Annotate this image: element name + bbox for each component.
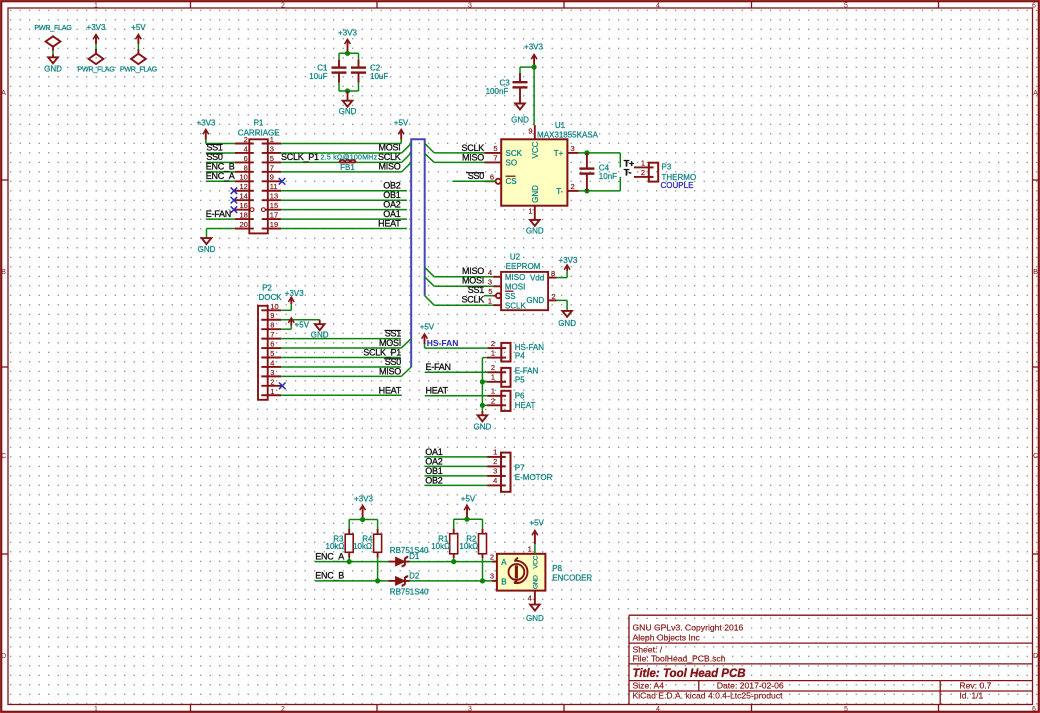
svg-text:3: 3 (571, 144, 575, 153)
svg-text:8: 8 (270, 321, 274, 330)
svg-text:+5V: +5V (420, 323, 435, 332)
svg-text:5: 5 (493, 144, 497, 153)
svg-text:+5V: +5V (394, 119, 409, 128)
svg-text:GND: GND (511, 116, 529, 125)
svg-text:A: A (1, 90, 6, 97)
svg-text:A: A (1033, 90, 1038, 97)
svg-text:1: 1 (270, 135, 274, 144)
svg-text:14: 14 (239, 192, 247, 201)
svg-text:3: 3 (270, 144, 274, 153)
svg-text:SCLK_P1: SCLK_P1 (281, 152, 319, 162)
svg-text:HS-FAN: HS-FAN (515, 343, 545, 352)
svg-text:2: 2 (490, 553, 494, 562)
svg-text:10kΩ: 10kΩ (326, 542, 345, 551)
svg-text:C: C (1, 453, 6, 460)
svg-text:HEAT: HEAT (515, 401, 536, 410)
svg-text:+5V: +5V (131, 23, 146, 32)
svg-text:1: 1 (94, 2, 98, 9)
svg-text:OA2: OA2 (425, 456, 443, 466)
svg-text:16: 16 (239, 201, 247, 210)
svg-text:E-FAN: E-FAN (515, 367, 539, 376)
svg-text:VCC: VCC (531, 141, 540, 158)
svg-text:9: 9 (270, 173, 274, 182)
svg-text:5: 5 (844, 2, 848, 9)
svg-text:P4: P4 (515, 352, 525, 361)
svg-text:OB1: OB1 (425, 466, 443, 476)
svg-text:HS-FAN: HS-FAN (427, 338, 459, 348)
svg-text:FB1: FB1 (340, 163, 355, 172)
svg-text:17: 17 (270, 211, 278, 220)
svg-text:SCK: SCK (506, 149, 523, 158)
svg-text:GND: GND (44, 65, 62, 74)
svg-text:8: 8 (244, 163, 248, 172)
svg-text:B: B (1, 269, 6, 276)
svg-text:File: ToolHead_PCB.sch: File: ToolHead_PCB.sch (633, 654, 726, 664)
svg-text:P1: P1 (254, 119, 264, 128)
svg-text:GND: GND (198, 245, 216, 254)
svg-text:2: 2 (552, 292, 556, 301)
svg-text:GND: GND (532, 575, 539, 589)
svg-text:1: 1 (94, 706, 98, 713)
svg-text:T-: T- (556, 187, 563, 196)
svg-text:SS: SS (505, 292, 516, 301)
svg-text:2: 2 (491, 363, 495, 372)
svg-text:7: 7 (493, 154, 497, 163)
svg-text:4: 4 (656, 706, 660, 713)
svg-text:2: 2 (641, 168, 645, 177)
svg-text:1: 1 (528, 207, 532, 216)
svg-text:3: 3 (468, 706, 472, 713)
svg-text:1: 1 (528, 545, 532, 554)
svg-text:E-MOTOR: E-MOTOR (515, 473, 553, 482)
svg-text:+3V3: +3V3 (197, 119, 216, 128)
svg-text:5: 5 (270, 349, 274, 358)
svg-text:MISO: MISO (462, 152, 484, 162)
svg-text:P6: P6 (515, 392, 525, 401)
svg-text:SO: SO (506, 158, 518, 167)
svg-text:10: 10 (270, 302, 278, 311)
svg-text:SCLK: SCLK (461, 295, 484, 305)
svg-text:+3V3: +3V3 (285, 289, 304, 298)
svg-text:4: 4 (528, 594, 532, 603)
svg-text:10uF: 10uF (370, 72, 388, 81)
svg-text:GND: GND (526, 226, 544, 235)
svg-text:P5: P5 (515, 376, 525, 385)
svg-text:SCLK: SCLK (461, 143, 484, 153)
svg-text:6: 6 (244, 154, 248, 163)
svg-text:ENC_B: ENC_B (315, 571, 344, 581)
svg-text:U1: U1 (555, 121, 566, 130)
svg-text:MISO: MISO (462, 266, 484, 276)
svg-text:MISO: MISO (379, 366, 401, 376)
svg-text:+5V: +5V (529, 519, 544, 528)
svg-text:+3V3: +3V3 (559, 256, 578, 265)
svg-text:HEAT: HEAT (426, 385, 449, 395)
svg-text:D2: D2 (409, 571, 420, 580)
svg-text:U2: U2 (510, 252, 521, 261)
svg-text:T-: T- (624, 168, 632, 178)
svg-text:SCLK: SCLK (505, 302, 527, 311)
svg-text:3: 3 (468, 2, 472, 9)
svg-text:12: 12 (239, 182, 247, 191)
svg-text:4: 4 (493, 476, 497, 485)
svg-text:B: B (501, 577, 506, 586)
svg-text:GND: GND (526, 296, 544, 305)
svg-text:DOCK: DOCK (258, 293, 282, 302)
svg-text:A: A (501, 558, 507, 567)
svg-text:Aleph Objects Inc: Aleph Objects Inc (633, 633, 701, 643)
svg-text:GND: GND (474, 423, 492, 432)
svg-text:ENC_A: ENC_A (206, 171, 235, 181)
svg-text:D: D (1, 653, 6, 660)
svg-text:7: 7 (270, 163, 274, 172)
svg-text:4: 4 (244, 144, 248, 153)
svg-text:GND: GND (339, 107, 357, 116)
svg-text:VCC: VCC (532, 555, 539, 568)
svg-text:8: 8 (551, 269, 555, 278)
svg-text:ENCODER: ENCODER (552, 573, 592, 582)
svg-text:+3V3: +3V3 (87, 23, 106, 32)
svg-text:Size: A4: Size: A4 (633, 680, 665, 690)
svg-text:1: 1 (491, 373, 495, 382)
svg-text:6: 6 (490, 173, 494, 182)
svg-text:E-FAN: E-FAN (426, 362, 451, 372)
svg-text:19: 19 (270, 220, 278, 229)
svg-text:2: 2 (281, 2, 285, 9)
svg-text:10: 10 (239, 173, 247, 182)
svg-text:6: 6 (1032, 2, 1036, 9)
svg-text:15: 15 (270, 201, 278, 210)
svg-text:PWR_FLAG: PWR_FLAG (77, 65, 115, 74)
svg-text:D1: D1 (409, 552, 420, 561)
svg-text:5: 5 (488, 287, 492, 296)
svg-text:MISO: MISO (378, 162, 400, 172)
svg-text:P8: P8 (552, 564, 562, 573)
svg-text:4: 4 (270, 358, 274, 367)
svg-text:Id. 1/1: Id. 1/1 (959, 690, 983, 700)
svg-text:T+: T+ (554, 149, 564, 158)
svg-text:1: 1 (488, 296, 492, 305)
svg-text:6: 6 (270, 340, 274, 349)
svg-text:100nF: 100nF (486, 87, 509, 96)
svg-text:2: 2 (281, 706, 285, 713)
svg-text:HEAT: HEAT (379, 385, 402, 395)
svg-text:1: 1 (641, 159, 645, 168)
svg-text:CS: CS (506, 177, 517, 186)
svg-text:PWR_FLAG: PWR_FLAG (34, 23, 72, 32)
svg-text:9: 9 (528, 127, 532, 136)
svg-text:10uF: 10uF (309, 72, 327, 81)
svg-text:2.5 kΩ@100MHz: 2.5 kΩ@100MHz (321, 155, 378, 162)
svg-text:Vdd: Vdd (530, 274, 544, 283)
svg-text:3: 3 (493, 467, 497, 476)
svg-text:B: B (1033, 269, 1038, 276)
svg-text:MISO: MISO (505, 273, 525, 282)
svg-text:RB751S40: RB751S40 (390, 587, 429, 596)
svg-text:P2: P2 (262, 283, 272, 292)
svg-text:2: 2 (244, 135, 248, 144)
svg-text:Title: Tool Head PCB: Title: Tool Head PCB (633, 668, 746, 680)
svg-text:1: 1 (491, 348, 495, 357)
svg-text:10kΩ: 10kΩ (353, 542, 372, 551)
svg-text:1: 1 (491, 387, 495, 396)
svg-text:+3V3: +3V3 (338, 28, 357, 37)
svg-text:2: 2 (270, 377, 274, 386)
svg-text:2: 2 (491, 396, 495, 405)
svg-text:Rev: 0.7: Rev: 0.7 (959, 680, 991, 690)
svg-text:PWR_FLAG: PWR_FLAG (120, 65, 158, 74)
svg-text:3: 3 (270, 368, 274, 377)
svg-text:COUPLE: COUPLE (661, 181, 694, 190)
svg-text:Date: 2017-02-06: Date: 2017-02-06 (717, 680, 784, 690)
svg-text:C: C (1033, 453, 1038, 460)
svg-text:10kΩ: 10kΩ (459, 542, 478, 551)
svg-text:MOSI: MOSI (505, 283, 525, 292)
svg-text:5: 5 (844, 706, 848, 713)
svg-text:10nF: 10nF (599, 172, 617, 181)
svg-text:+3V3: +3V3 (354, 494, 373, 503)
svg-text:GNU GPLv3. Copyright 2016: GNU GPLv3. Copyright 2016 (633, 623, 744, 633)
svg-text:6: 6 (1032, 706, 1036, 713)
svg-text:OA1: OA1 (425, 447, 443, 457)
svg-text:GND: GND (526, 614, 544, 623)
svg-text:2: 2 (493, 457, 497, 466)
svg-text:E-FAN: E-FAN (206, 209, 231, 219)
svg-text:1: 1 (270, 387, 274, 396)
svg-text:+3V3: +3V3 (524, 42, 543, 51)
svg-text:MAX31855KASA: MAX31855KASA (537, 131, 599, 140)
svg-text:9: 9 (270, 311, 274, 320)
svg-text:2: 2 (491, 339, 495, 348)
svg-text:GND: GND (558, 319, 576, 328)
svg-text:3: 3 (490, 571, 494, 580)
svg-text:+5V: +5V (295, 321, 310, 330)
svg-text:11: 11 (270, 182, 278, 191)
svg-text:18: 18 (239, 211, 247, 220)
svg-text:4: 4 (488, 268, 492, 277)
svg-text:5: 5 (270, 154, 274, 163)
svg-text:P3: P3 (662, 163, 672, 172)
svg-text:+5V: +5V (461, 494, 476, 503)
svg-text:13: 13 (270, 192, 278, 201)
svg-text:KiCad E.D.A. kicad 4.0.4-Ltc2: KiCad E.D.A. kicad 4.0.4-Ltc25-product (633, 690, 784, 700)
svg-text:7: 7 (270, 330, 274, 339)
svg-text:ENC_A: ENC_A (315, 552, 344, 562)
svg-text:1: 1 (493, 448, 497, 457)
svg-text:4: 4 (656, 2, 660, 9)
svg-text:EEPROM: EEPROM (506, 262, 541, 271)
svg-text:10kΩ: 10kΩ (431, 542, 450, 551)
svg-text:HEAT: HEAT (378, 218, 401, 228)
svg-text:D: D (1033, 653, 1038, 660)
svg-text:GND: GND (531, 185, 540, 203)
svg-text:P7: P7 (515, 463, 525, 472)
svg-text:2: 2 (571, 182, 575, 191)
svg-text:20: 20 (239, 220, 247, 229)
svg-text:3: 3 (488, 277, 492, 286)
svg-text:OB2: OB2 (425, 475, 443, 485)
